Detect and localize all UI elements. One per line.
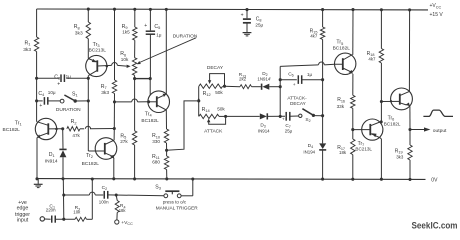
svg-text:DECAY: DECAY <box>207 65 224 71</box>
diode D2 <box>261 84 263 90</box>
switch S2 contact <box>299 114 302 117</box>
wire R17 to 0V <box>352 155 354 180</box>
transistor Tr7 base lead <box>353 129 371 131</box>
resistor R15 <box>320 27 324 39</box>
node feed junction arrow <box>197 99 200 102</box>
diode D3 <box>260 113 267 119</box>
svg-text:R12: R12 <box>203 91 211 97</box>
ground symbol left <box>37 179 39 184</box>
switch S1 pivot <box>74 99 77 102</box>
wire Tr5 emitter to R11 <box>352 74 354 95</box>
wire R8 to Tr3 emitter <box>87 39 89 59</box>
svg-text:D1: D1 <box>49 152 55 158</box>
node R4 top junction <box>115 193 118 196</box>
wire node to R18 <box>166 150 168 156</box>
transistor Tr3 collector <box>88 70 97 75</box>
node R16 top rail junction <box>380 8 383 11</box>
svg-text:Tr2: Tr2 <box>86 153 93 159</box>
resistor R11 <box>351 95 355 108</box>
transistor Tr6 emitter with arrow <box>400 103 407 105</box>
svg-text:press to o/c: press to o/c <box>163 199 187 204</box>
wire R19 to 0V <box>409 160 411 179</box>
node R18 rail junction <box>165 177 168 180</box>
node R19 rail junction <box>408 178 411 181</box>
node R15 top rail junction <box>321 8 324 11</box>
svg-text:+: + <box>282 117 285 122</box>
resistor R17 <box>351 139 355 155</box>
node R17 rail junction <box>351 178 354 181</box>
wire C3 row right <box>66 77 88 79</box>
transistor Tr4 emitter upper with arrow <box>157 96 163 99</box>
svg-text:27k: 27k <box>120 139 128 144</box>
svg-text:4k7: 4k7 <box>310 34 318 39</box>
resistor R1 <box>34 37 38 52</box>
waveform symbol <box>423 110 453 116</box>
wire Tr1 emitter to 0V <box>36 138 38 179</box>
svg-text:BC182L: BC182L <box>82 161 100 167</box>
resistor R9 <box>133 27 137 40</box>
svg-text:25μ: 25μ <box>255 23 263 28</box>
wire C3 row left <box>37 77 60 79</box>
svg-text:33k: 33k <box>337 104 345 109</box>
svg-text:+: + <box>57 81 60 87</box>
wire C4 to S1 <box>48 100 60 102</box>
transistor Tr5 base bar <box>342 58 344 70</box>
svg-text:S3: S3 <box>155 185 161 191</box>
svg-text:SeekIC.com: SeekIC.com <box>412 220 458 231</box>
wire envelope node column <box>279 66 281 116</box>
wire R8 top lead <box>87 9 89 22</box>
transistor Tr7 collector upper <box>370 122 380 126</box>
node Tr7 base junction <box>351 128 354 131</box>
wire C4 row left <box>37 100 43 102</box>
wire R2 right with hop <box>80 128 84 130</box>
potentiometer R6 track <box>132 58 136 76</box>
wire R5 to 0V <box>134 145 136 179</box>
svg-text:C3: C3 <box>54 74 60 80</box>
resistor R14 attack pot <box>199 114 219 118</box>
switch S3 button bar <box>165 190 179 192</box>
svg-text:3k3: 3k3 <box>23 47 31 53</box>
resistor R2 <box>67 127 80 131</box>
node R14 right junction <box>224 115 227 118</box>
transistor Tr1 collector <box>37 122 48 126</box>
terminal input <box>40 217 44 221</box>
node Tr2 emitter rail junction <box>112 177 115 180</box>
capacitor C7 <box>285 112 287 121</box>
wire R18 to 0V <box>166 170 168 179</box>
node C1 R3 junction <box>62 218 65 221</box>
node R9 top rail junction <box>133 8 136 11</box>
capacitor C2 <box>103 191 105 199</box>
wire C6 right <box>302 79 323 81</box>
transistor Tr2 emitter <box>105 153 112 156</box>
node C6 left junction <box>279 78 282 81</box>
svg-text:+: + <box>144 23 147 29</box>
resistor R16 <box>379 49 383 64</box>
svg-text:output: output <box>433 128 447 134</box>
transistor Tr3 emitter with PNP arrow <box>88 59 97 62</box>
resistor R8 <box>86 22 90 39</box>
wire R14 right <box>219 115 226 117</box>
svg-text:S1: S1 <box>72 92 78 98</box>
node R10 R18 junction <box>165 149 168 152</box>
svg-text:R14: R14 <box>202 107 211 113</box>
wire Tr2 base stub <box>87 101 89 151</box>
node D1 bottom rail junction <box>61 177 64 180</box>
svg-text:input: input <box>17 217 29 223</box>
resistor R4 <box>115 201 119 213</box>
svg-text:3k3: 3k3 <box>396 155 404 160</box>
svg-text:10μ: 10μ <box>48 90 56 95</box>
wire R11 to Tr7 base node <box>352 108 354 139</box>
capacitor C6 <box>297 75 299 84</box>
resistor R3 <box>75 217 87 221</box>
node C2 row left junction <box>62 193 65 196</box>
transistor Tr1 circle <box>35 118 56 139</box>
transistor Tr2 base bar <box>104 143 106 155</box>
wire output arrow <box>410 129 424 131</box>
wire Tr3 collector down column <box>87 76 89 101</box>
capacitor C8 <box>246 10 248 19</box>
svg-text:+: + <box>293 83 296 88</box>
wire R4 stem top <box>116 195 117 201</box>
svg-text:DECAY: DECAY <box>290 101 307 106</box>
node output junction <box>408 128 411 131</box>
svg-text:BC182L: BC182L <box>384 121 401 126</box>
svg-text:330: 330 <box>152 139 160 144</box>
capacitor C5 <box>149 9 151 30</box>
node Tr3 column S1 junction <box>87 99 90 102</box>
svg-text:25μ: 25μ <box>285 129 293 134</box>
wire R13 to D2 <box>252 86 261 88</box>
wire R10 to R18 node <box>166 143 168 150</box>
transistor Tr1 base lead <box>48 128 62 130</box>
switch S3 left contact <box>164 194 168 198</box>
pot R14 wiper bracket ATTACK <box>209 116 226 124</box>
svg-text:0V: 0V <box>431 178 438 184</box>
wire 0V to C2 row <box>62 179 65 219</box>
wire R6 bottom to timing node <box>134 75 136 78</box>
node Tr2 collector junction <box>113 127 116 130</box>
svg-text:Tr3: Tr3 <box>93 42 100 48</box>
diode D1 <box>62 129 64 149</box>
node Tr3 column C3 junction <box>87 77 90 80</box>
node R5 rail junction <box>133 177 136 180</box>
svg-text:Tr1: Tr1 <box>15 121 22 127</box>
transistor Tr7 base bar <box>369 124 371 135</box>
svg-text:1N914': 1N914' <box>257 76 271 81</box>
node C3 left junction <box>35 77 38 80</box>
svg-text:R7: R7 <box>101 84 107 90</box>
node C6 right column junction <box>321 78 324 81</box>
transistor Tr7 circle <box>362 119 383 140</box>
svg-text:680: 680 <box>152 160 160 165</box>
switch S1 contact <box>60 99 64 103</box>
node R6 bottom junction <box>133 77 136 80</box>
svg-text:edge: edge <box>17 206 29 212</box>
transistor Tr6 base bar <box>399 94 401 105</box>
ground symbol C8 <box>243 32 252 34</box>
svg-text:IN914: IN914 <box>258 128 270 133</box>
wire R16 top lead <box>380 10 382 49</box>
transistor Tr6 circle <box>391 88 413 110</box>
svg-text:R8: R8 <box>74 24 80 30</box>
node C5 timing junction <box>149 77 152 80</box>
svg-text:18k: 18k <box>339 150 347 155</box>
capacitor C3 <box>60 74 62 82</box>
wire C6 left <box>280 79 297 81</box>
node D2 envelope junction <box>279 85 282 88</box>
wire input to C1 <box>45 218 51 220</box>
svg-text:50k: 50k <box>217 106 225 111</box>
transistor Tr2 circle <box>95 138 117 160</box>
wire C2 right to S3 <box>108 194 164 197</box>
svg-text:3k3: 3k3 <box>101 90 109 96</box>
svg-text:1μ: 1μ <box>156 33 162 38</box>
transistor Tr3 base bar <box>96 60 98 71</box>
wire R15 top lead <box>322 10 324 27</box>
wire R6 column down <box>134 79 136 131</box>
wire envelope feed <box>167 101 197 150</box>
node R16 bottom junction <box>380 100 383 103</box>
svg-text:ATTACK: ATTACK <box>204 129 223 135</box>
resistor R12 decay pot <box>199 84 223 88</box>
wire D4 to 0V <box>322 150 324 179</box>
switch S2 blade <box>302 109 313 116</box>
svg-text:Tr4: Tr4 <box>145 112 153 118</box>
transistor Tr1 base bar <box>47 123 49 134</box>
wire Tr6 emitter to output node <box>409 106 411 129</box>
transistor Tr1 emitter <box>39 133 49 137</box>
node R7 top rail junction <box>113 8 116 11</box>
wire C1 to R3 <box>55 218 75 220</box>
svg-text:3k3: 3k3 <box>75 31 83 37</box>
terminal R4 +Vcc <box>115 220 119 224</box>
svg-text:+: + <box>241 12 244 18</box>
transistor Tr4 circle <box>148 91 170 113</box>
svg-text:10k: 10k <box>73 209 81 214</box>
transistor Tr7 emitter lower with PNP arrow <box>370 133 380 137</box>
wire R1 bottom to Tr1 collector <box>36 52 38 122</box>
wire Tr4 to +Vcc <box>165 9 167 94</box>
svg-text:DURATION: DURATION <box>56 107 81 113</box>
wire Tr4 to R10 <box>165 110 167 129</box>
wire 0V bottom rail <box>37 178 426 181</box>
transistor Tr5 base lead with hop <box>280 65 318 67</box>
node D4 rail junction <box>321 178 324 181</box>
svg-text:BC182L: BC182L <box>3 127 21 133</box>
transistor Tr4 collector lower <box>157 105 167 110</box>
node C5 top rail junction <box>149 8 152 11</box>
transistor Tr6 base lead <box>381 100 399 102</box>
svg-text:50k: 50k <box>215 90 223 95</box>
svg-text:10k: 10k <box>121 57 129 62</box>
wire S1 to right column <box>75 100 88 102</box>
wire C7 to S2 <box>290 115 299 117</box>
node R3 riser rail junction <box>91 177 94 180</box>
transistor Tr2 collector <box>105 140 114 144</box>
node Tr1 emitter rail junction <box>35 177 38 180</box>
node R12 right junction <box>223 85 226 88</box>
resistor R19 <box>408 145 412 160</box>
wire Tr7 emitter to 0V <box>380 138 382 139</box>
transistor Tr5 base lead inner <box>335 63 343 65</box>
svg-text:+: + <box>39 103 42 109</box>
svg-text:DURATION: DURATION <box>173 33 198 39</box>
wire R12 to R13 <box>225 85 241 88</box>
wire R3 right riser <box>87 218 93 220</box>
svg-text:R2: R2 <box>71 119 77 125</box>
svg-text:BC182L: BC182L <box>333 45 351 51</box>
svg-text:IN914: IN914 <box>45 158 58 164</box>
svg-text:220n: 220n <box>46 208 56 213</box>
svg-text:+15 V: +15 V <box>430 12 444 18</box>
wire S2 link <box>313 115 322 117</box>
svg-text:BC182L: BC182L <box>141 118 159 124</box>
node S3 rail junction <box>191 177 194 180</box>
wire Tr6 collector to +Vcc <box>408 10 410 92</box>
node Tr4 top rail junction <box>165 8 168 11</box>
wire Tr4 base lead with hop <box>115 101 132 103</box>
node C4 left junction <box>35 99 38 102</box>
transistor Tr4 base lead inner <box>149 101 157 103</box>
transistor Tr3 base lead with hop <box>106 65 109 68</box>
wire R16 to Tr6 base node <box>380 63 382 122</box>
transistor Tr5 circle <box>335 53 356 74</box>
svg-text:4k7: 4k7 <box>368 57 376 62</box>
switch S1 blade <box>64 95 74 101</box>
svg-text:Tr5: Tr5 <box>336 40 343 46</box>
wire R15 lower lead <box>322 39 324 143</box>
node Tr4 base branch junction <box>113 100 116 103</box>
svg-text:1μ: 1μ <box>307 72 313 77</box>
resistor R7 <box>112 80 116 94</box>
wire S3 to 0V <box>181 195 193 197</box>
node S2 column junction <box>321 114 324 117</box>
wire output node to R19 <box>409 130 411 146</box>
wire D3 to C7 node <box>267 115 285 117</box>
svg-text:IN194: IN194 <box>303 149 315 154</box>
resistor R10 <box>164 129 168 143</box>
svg-text:C5: C5 <box>154 24 160 30</box>
node Tr7 emitter rail junction <box>380 178 383 181</box>
svg-text:MANUAL TRIGGER: MANUAL TRIGGER <box>156 206 199 211</box>
svg-text:2k2: 2k2 <box>239 77 247 82</box>
svg-text:R1: R1 <box>25 40 31 46</box>
node C7 left junction <box>279 115 282 118</box>
capacitor C1 <box>51 216 53 223</box>
svg-text:100n: 100n <box>99 199 109 204</box>
svg-text:BC213L: BC213L <box>355 146 372 151</box>
node Tr7 collector junction <box>380 120 383 123</box>
transistor Tr6 collector <box>400 91 410 95</box>
svg-text:C4: C4 <box>38 91 45 97</box>
transistor Tr5 collector <box>343 55 353 60</box>
node R8 top rail junction <box>87 8 90 11</box>
wire C2 row left with hop <box>64 194 90 196</box>
switch S3 right contact <box>177 194 181 198</box>
resistor R13 <box>240 85 252 89</box>
diode D4 <box>319 143 326 149</box>
svg-text:ATTACK-: ATTACK- <box>287 95 307 100</box>
wire R9 top lead <box>134 9 136 27</box>
wire R14 to D3 <box>226 115 260 117</box>
transistor Tr3 circle <box>86 55 107 76</box>
wire decay block left vertical <box>198 86 200 116</box>
svg-text:BC213L: BC213L <box>89 48 107 54</box>
node Tr6 collector rail junction <box>408 8 411 11</box>
svg-text:47k: 47k <box>72 133 80 138</box>
node R2 left / D1 top junction <box>61 127 64 130</box>
resistor R18 <box>164 156 168 170</box>
resistor R5 <box>132 131 136 145</box>
node Tr5 collector rail junction <box>351 8 354 11</box>
transistor Tr5 emitter with arrow <box>343 68 350 71</box>
wire R7 lower lead <box>113 94 115 129</box>
svg-text:18k: 18k <box>119 208 127 213</box>
transistor Tr4 base bar <box>156 96 158 107</box>
capacitor C4 <box>43 97 45 105</box>
svg-text:1k5: 1k5 <box>122 30 130 35</box>
wire R4 to terminal <box>116 213 118 220</box>
node C8 rail junction <box>245 8 248 11</box>
wire +Vcc top supply rail <box>37 8 428 11</box>
node Tr4 base junction <box>147 100 150 103</box>
label DURATION pointer <box>140 38 196 63</box>
wire R7 upper lead <box>114 9 116 80</box>
wire R9 to R6 <box>134 40 136 58</box>
pot R12 wiper bracket DECAY <box>210 74 225 87</box>
wire D2 to node <box>269 86 280 88</box>
